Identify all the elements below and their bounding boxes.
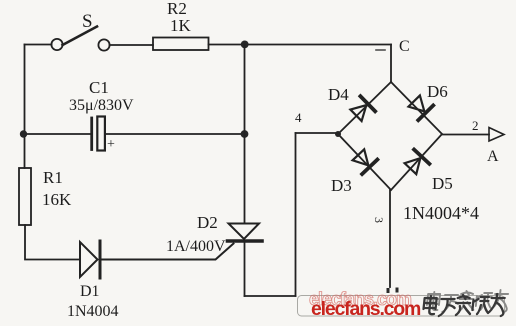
diode D1 (80, 241, 100, 278)
wire: node 4 to bridge left vertex (296, 132, 339, 134)
svg-text:1N4004: 1N4004 (67, 303, 119, 320)
junction dot left C1 (20, 130, 27, 137)
svg-text:C: C (399, 38, 410, 55)
svg-text:+: + (107, 137, 115, 152)
junction dot center (241, 130, 249, 138)
svg-text:35μ/830V: 35μ/830V (69, 97, 134, 114)
svg-text:1A/400V: 1A/400V (166, 238, 226, 255)
diode D3 (351, 148, 378, 174)
svg-text:2: 2 (472, 118, 479, 133)
svg-text:1N4004*4: 1N4004*4 (403, 203, 479, 223)
wire: R1 bottom to D1 (25, 225, 80, 260)
svg-text:R1: R1 (43, 168, 63, 187)
watermark chinese characters (calligraphic squiggles) (426, 290, 509, 312)
svg-text:S: S (82, 11, 93, 32)
diode D6 (407, 94, 434, 120)
watermark border box (298, 296, 505, 317)
svg-text:A: A (487, 148, 499, 165)
resistor R2 (153, 38, 209, 51)
wire: bridge bottom vertex down (389, 190, 391, 287)
wire: bridge edge top-right (391, 82, 442, 134)
svg-text:C1: C1 (89, 78, 109, 97)
wire: bridge edge bottom-right (391, 134, 442, 190)
svg-text:D5: D5 (432, 174, 453, 193)
svg-text:3: 3 (372, 217, 386, 223)
wire: C1 right to center vertical (105, 133, 245, 135)
thyristor D2 (228, 224, 263, 242)
wire: bridge right vertex to output arrow (442, 134, 489, 136)
svg-text:1K: 1K (170, 16, 192, 35)
wire: D1 to D2 gate (102, 244, 234, 260)
wire: left vertical rail from top corner down to R1 top (24, 45, 26, 169)
wire: C1 branch left (25, 133, 91, 135)
wire: node 4 vertical (295, 133, 297, 296)
resistor R1 (19, 168, 31, 225)
wire: bridge edge top-left (338, 82, 391, 134)
svg-text:D3: D3 (331, 176, 352, 195)
switch S (51, 27, 109, 51)
label fragment near wire end (387, 288, 399, 294)
wire: D2 cathode down to bottom wire (244, 241, 246, 296)
svg-text:elecfans.com: elecfans.com (311, 298, 421, 320)
capacitor C1 (92, 117, 105, 151)
wire: bridge edge bottom-left (338, 134, 391, 190)
wire: R2 to corner C (209, 44, 392, 46)
connector arrow output (489, 128, 504, 142)
wire: switch to R2 (110, 44, 153, 46)
junction dot top (241, 41, 249, 49)
wire: bottom horizontal (245, 295, 296, 297)
wire: center vertical from top wire to D2 (244, 45, 246, 224)
diode D5 (403, 150, 430, 176)
artifact dash under wire near C (376, 49, 385, 51)
svg-text:D1: D1 (80, 283, 100, 300)
svg-text:4: 4 (295, 110, 302, 125)
svg-text:D2: D2 (197, 213, 218, 232)
junction dot bridge left vertex (335, 131, 341, 137)
diode D4 (349, 96, 375, 123)
wire: top-left corner horizontal to switch (25, 44, 52, 46)
svg-text:16K: 16K (42, 190, 72, 209)
svg-text:D4: D4 (328, 85, 349, 104)
wire: C corner down to bridge top (390, 45, 392, 83)
svg-text:D6: D6 (427, 82, 448, 101)
